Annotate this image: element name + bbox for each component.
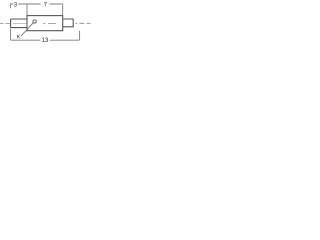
dim line 3-7 top xyxy=(11,3,63,15)
svg-text:7: 7 xyxy=(44,2,48,9)
part outline xyxy=(11,16,74,31)
centerline xyxy=(0,22,91,24)
circle symbol xyxy=(33,20,36,23)
arrowheads xyxy=(11,3,80,40)
svg-text:13: 13 xyxy=(41,37,49,44)
K leader line xyxy=(21,23,33,36)
svg-text:3: 3 xyxy=(14,2,18,9)
small right cylinder xyxy=(63,19,73,27)
labels xyxy=(14,2,49,44)
small left cylinder xyxy=(11,19,27,28)
svg-text:K: K xyxy=(17,34,21,40)
big cylinder xyxy=(27,16,63,31)
dim line 13 bottom xyxy=(11,29,80,41)
